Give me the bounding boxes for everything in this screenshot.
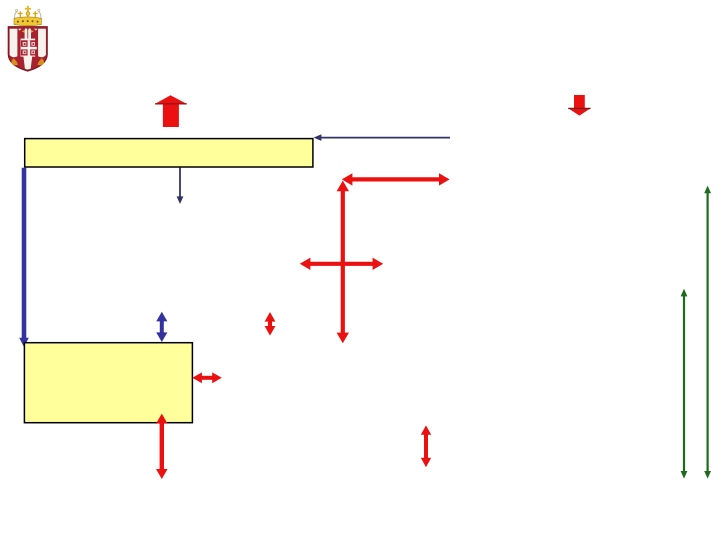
red double arrow right of box 2 (199, 376, 215, 380)
yellow box 1 (25, 139, 313, 167)
yellow box 2 (24, 343, 192, 423)
blue wire from right into box 1 (319, 137, 450, 139)
red horizontal double arrow top (349, 177, 443, 181)
white feather tufts (18, 29, 21, 31)
eagle right wing (38, 29, 46, 58)
eagle necks and heads (25, 28, 28, 40)
red double arrow below box 2 (160, 421, 164, 471)
red block down arrow (568, 95, 590, 116)
crown (14, 6, 41, 26)
blue double arrow above box 2 (160, 319, 164, 335)
breast shield panel (21, 40, 37, 55)
red crossing horizontal double arrow (307, 262, 376, 266)
red block up arrow (155, 95, 187, 127)
red small double arrow (268, 319, 272, 329)
beaks (22, 30, 25, 33)
eagle tail (23, 56, 32, 69)
coat of arms of Serbia (8, 6, 47, 71)
eagle left wing (10, 29, 18, 58)
gold fleur left (11, 58, 18, 65)
red double arrow lower middle (424, 432, 428, 461)
blue thick arrow down left (22, 168, 27, 340)
green double arrow long (706, 191, 708, 473)
gold fleur right (38, 58, 45, 65)
red long vertical double arrow center (341, 188, 345, 336)
eagle body (21, 39, 36, 57)
shield (8, 27, 47, 71)
green double arrow short (683, 294, 685, 473)
blue thin arrow down from box 1 (179, 168, 181, 199)
